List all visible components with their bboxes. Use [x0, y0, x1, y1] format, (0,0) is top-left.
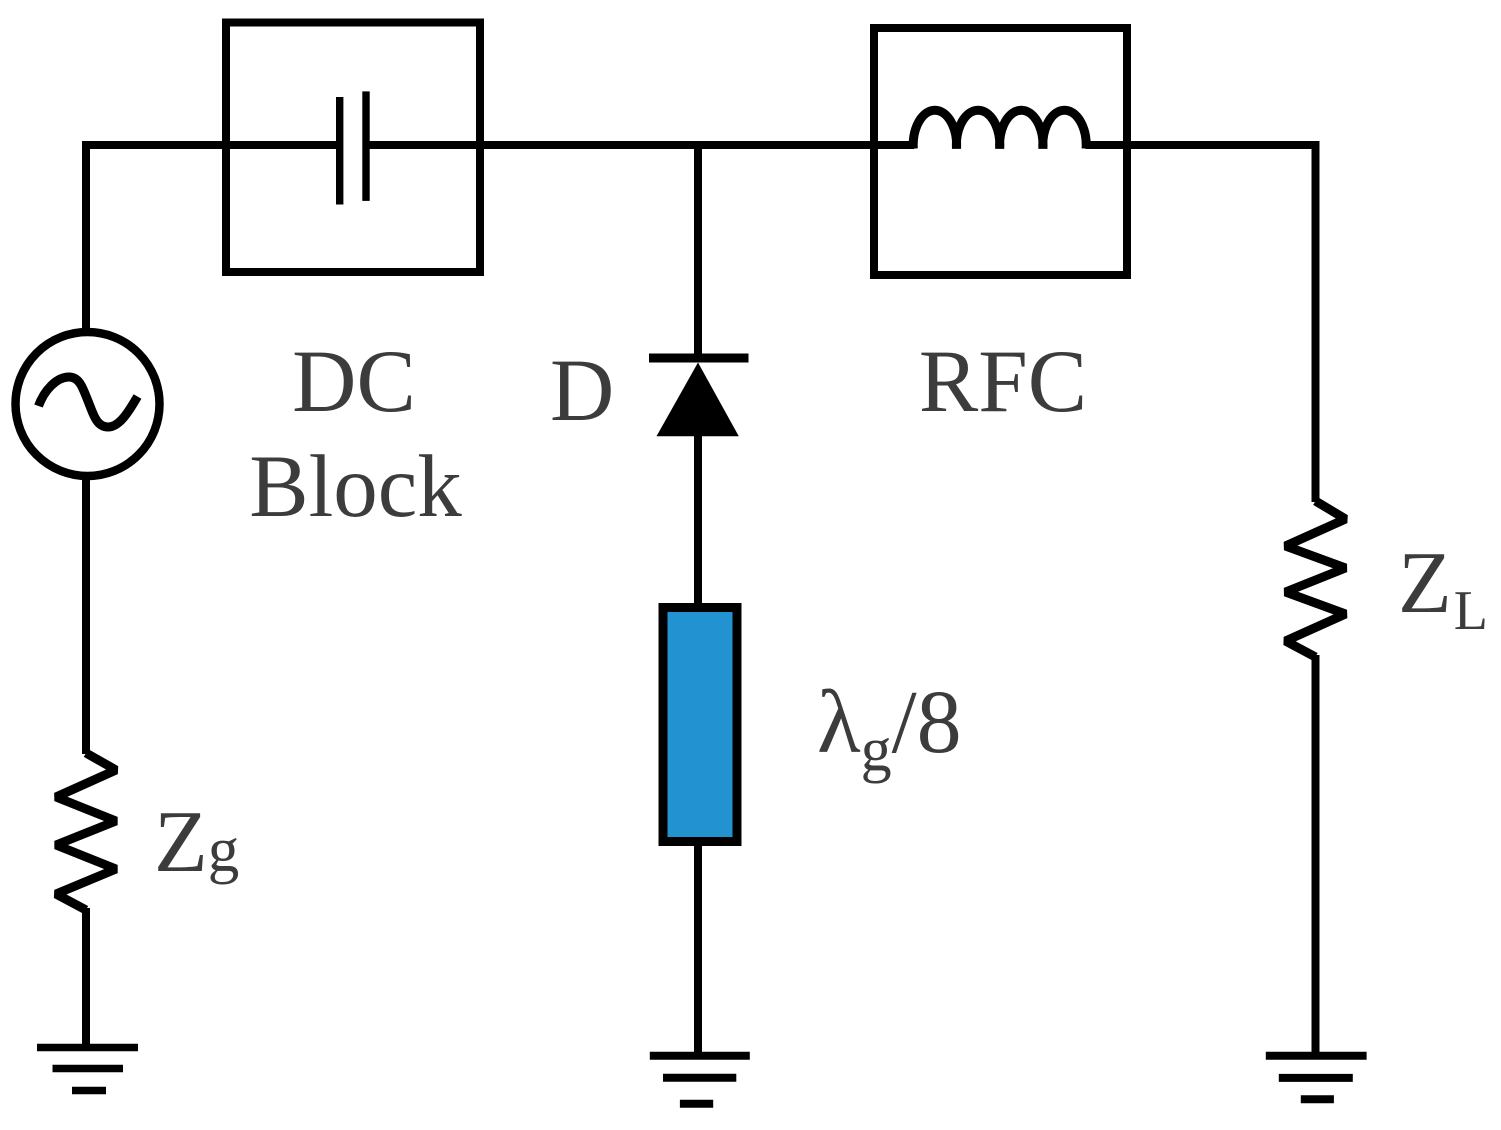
wire: diode to transmission line: [694, 434, 702, 607]
svg-text:L: L: [1454, 580, 1488, 642]
DC Block box: [226, 23, 480, 273]
diode D triangle (anode, pointing up): [657, 363, 739, 437]
inductor RFC (4 arcs): [913, 110, 1086, 148]
AC source sine wave: [39, 377, 138, 427]
capacitor (DC block) right plate: [362, 91, 369, 200]
svg-text:DC: DC: [292, 333, 416, 431]
wire: right vertical from top wire to ZL: [1312, 141, 1320, 502]
ground (left): [37, 1048, 138, 1091]
ground (right): [1266, 1056, 1367, 1100]
wire: transmission line to ground: [694, 844, 702, 1055]
wire: top horizontal left segment (source to capacitor left plate): [82, 141, 339, 149]
resistor ZL (zigzag): [1286, 501, 1346, 657]
wire: left vertical from top wire to AC source: [82, 142, 90, 331]
wire: top horizontal right segment (capacitor right plate to inductor): [366, 141, 914, 149]
svg-text:Z: Z: [1398, 535, 1452, 632]
svg-text:Block: Block: [249, 438, 462, 536]
ground (middle): [650, 1056, 750, 1104]
wire: ZL to ground: [1312, 655, 1320, 1055]
svg-text:RFC: RFC: [919, 333, 1087, 431]
wire: inductor to right corner: [1086, 141, 1316, 149]
transmission line stub lambda_g/8 (blue rectangle): [663, 608, 737, 842]
diode D cathode bar: [649, 354, 749, 363]
svg-text:D: D: [550, 342, 614, 440]
capacitor (DC block) left plate: [336, 97, 343, 205]
wire: AC source to Zg resistor: [82, 477, 90, 754]
resistor Zg (zigzag): [56, 753, 116, 910]
RFC box: [874, 28, 1127, 275]
wire: top wire to diode cathode: [694, 145, 702, 355]
svg-text:Zg: Zg: [154, 794, 239, 891]
svg-text:λg/8: λg/8: [817, 673, 962, 784]
wire: Zg to ground: [82, 908, 90, 1047]
AC source Vg (circle): [16, 332, 160, 476]
